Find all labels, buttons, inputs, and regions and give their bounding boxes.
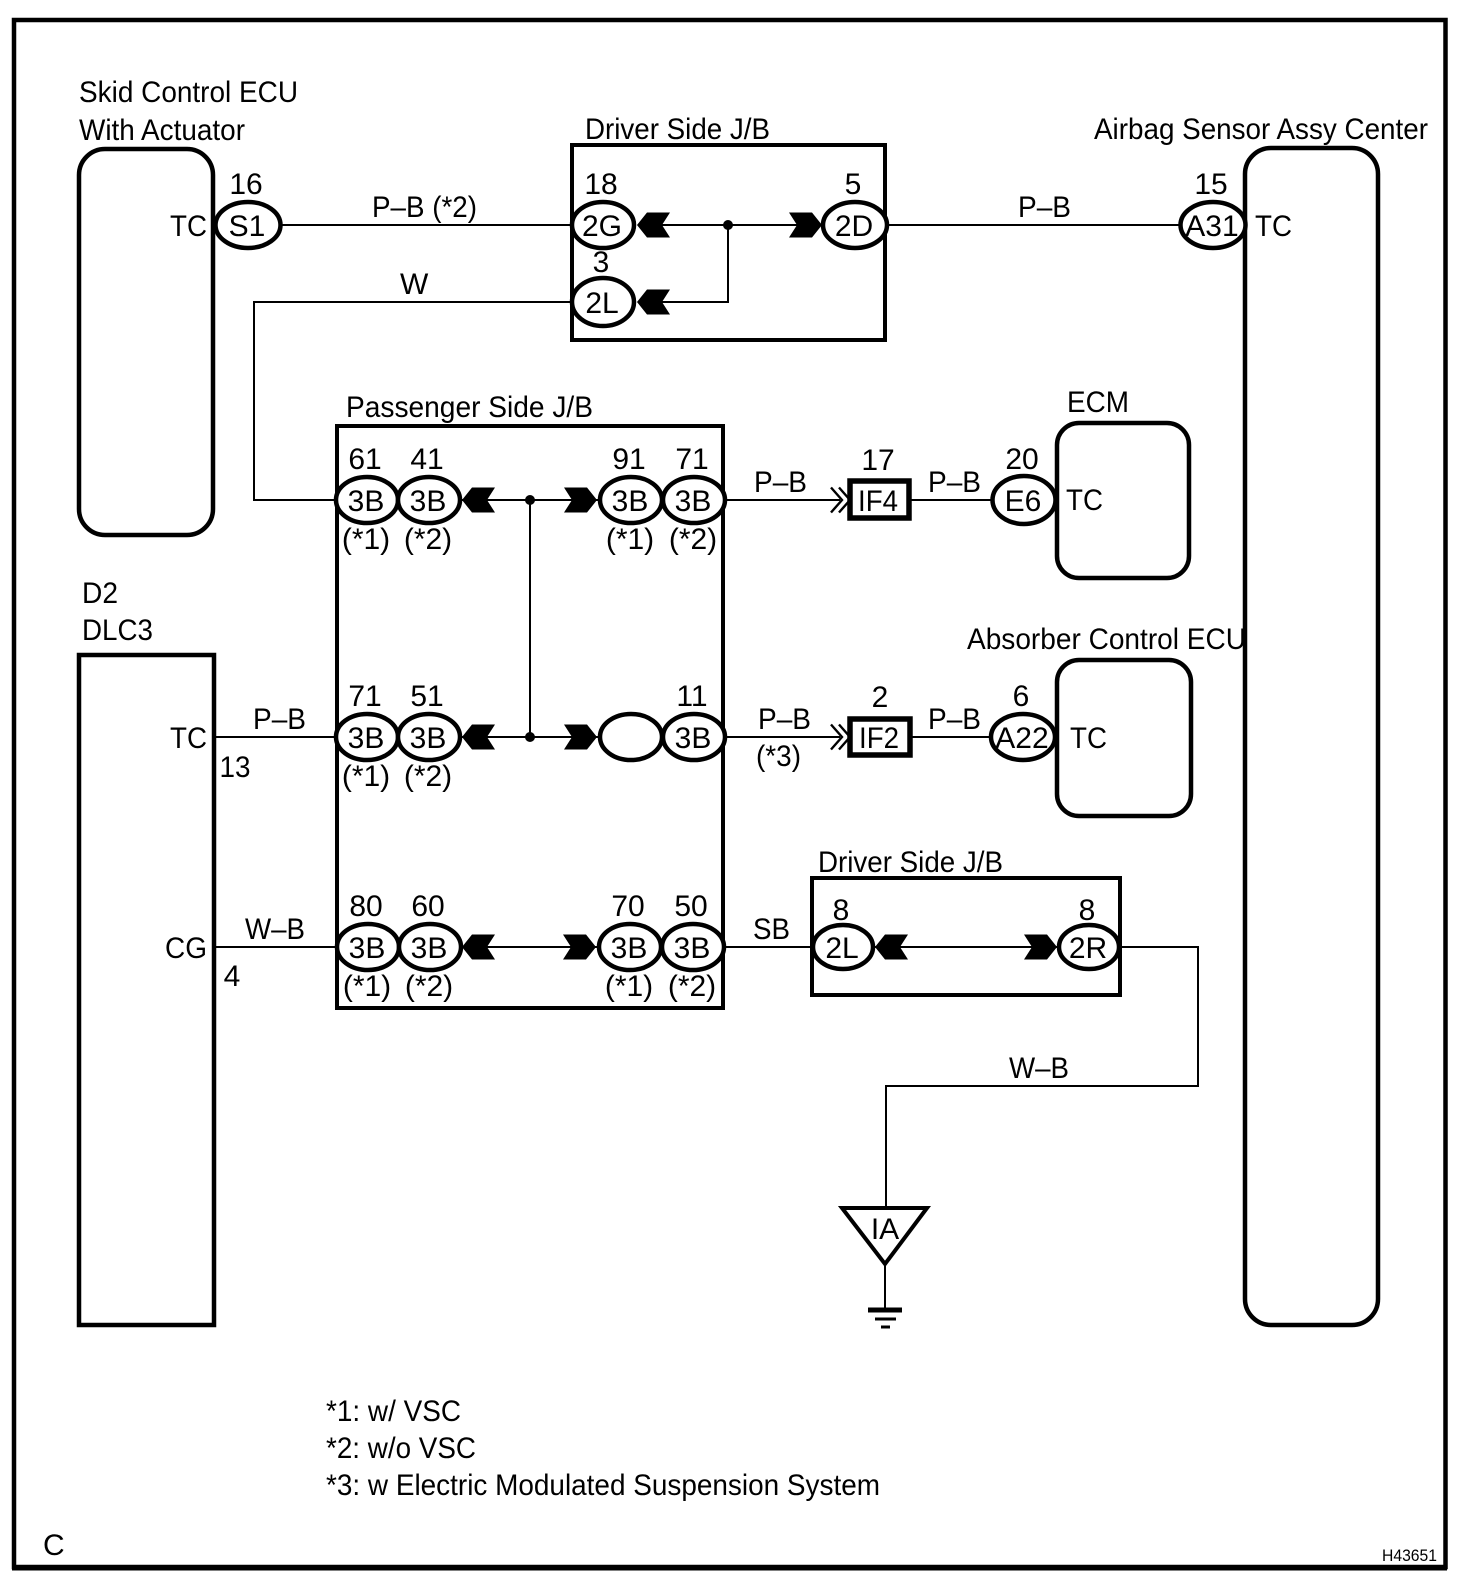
svg-text:Airbag Sensor Assy Center: Airbag Sensor Assy Center bbox=[1094, 113, 1428, 146]
ECM component box bbox=[1057, 423, 1189, 578]
svg-text:W–B: W–B bbox=[245, 913, 305, 946]
wire IA to ground symbol bbox=[884, 1264, 886, 1310]
connector splice arrows before IF4 bbox=[831, 488, 850, 513]
svg-text:3: 3 bbox=[593, 246, 610, 279]
svg-text:Driver Side J/B: Driver Side J/B bbox=[585, 113, 770, 146]
svg-text:IF4: IF4 bbox=[858, 485, 898, 518]
svg-text:3B: 3B bbox=[675, 722, 712, 755]
DLC3 connector box bbox=[79, 655, 214, 1325]
svg-text:17: 17 bbox=[861, 444, 894, 477]
male arrow row 2 bbox=[564, 488, 597, 513]
svg-text:Driver Side J/B: Driver Side J/B bbox=[818, 846, 1003, 879]
svg-text:70: 70 bbox=[611, 890, 644, 923]
svg-text:(*1): (*1) bbox=[342, 760, 390, 793]
connector splice arrows before IF2 bbox=[831, 725, 850, 750]
svg-text:4: 4 bbox=[224, 960, 241, 993]
svg-text:P–B (*2): P–B (*2) bbox=[372, 191, 477, 224]
connector 3B pin 91 of passenger side J/B bbox=[600, 477, 662, 523]
svg-text:(*1): (*1) bbox=[605, 970, 653, 1003]
svg-text:(*1): (*1) bbox=[343, 970, 391, 1003]
svg-text:91: 91 bbox=[612, 443, 645, 476]
female arrow row 4 bbox=[462, 935, 495, 960]
svg-text:D2: D2 bbox=[82, 577, 118, 610]
svg-text:(*2): (*2) bbox=[669, 523, 717, 556]
svg-text:(*2): (*2) bbox=[404, 760, 452, 793]
connector 3B pin 41 of passenger side J/B bbox=[398, 477, 460, 523]
Airbag Sensor Assy Center component box bbox=[1245, 148, 1378, 1325]
connector 3B pin 61 of passenger side J/B bbox=[336, 477, 398, 523]
svg-text:2L: 2L bbox=[825, 932, 858, 965]
wire 2G to 2D inside junction block bbox=[648, 224, 812, 226]
svg-text:3B: 3B bbox=[411, 932, 448, 965]
wire 2D to A31, P-B bbox=[885, 224, 1183, 226]
svg-text:2D: 2D bbox=[835, 210, 873, 243]
svg-text:TC: TC bbox=[1255, 210, 1292, 243]
Skid Control ECU with Actuator component box bbox=[79, 149, 213, 535]
connector 2L pin 3 of driver side J/B bbox=[572, 278, 634, 326]
connector 3B pin 71 of passenger side J/B bbox=[663, 477, 725, 523]
svg-text:CG: CG bbox=[165, 932, 207, 965]
wire S1 to 2G, P-B (*2) bbox=[281, 224, 574, 226]
svg-text:71: 71 bbox=[348, 680, 381, 713]
svg-text:2G: 2G bbox=[582, 210, 622, 243]
svg-text:41: 41 bbox=[410, 443, 443, 476]
male arrow at 2R bottom bbox=[1024, 935, 1057, 960]
junction node row 2 bbox=[525, 495, 535, 505]
svg-text:3B: 3B bbox=[410, 722, 447, 755]
svg-text:11: 11 bbox=[676, 680, 707, 713]
connector A22 pin 6 of absorber control ECU bbox=[991, 714, 1055, 760]
svg-text:(*2): (*2) bbox=[404, 523, 452, 556]
ground connector IA triangle bbox=[842, 1208, 927, 1264]
svg-text:Passenger Side J/B: Passenger Side J/B bbox=[346, 391, 593, 424]
svg-text:H43651: H43651 bbox=[1382, 1546, 1437, 1565]
svg-text:13: 13 bbox=[220, 751, 251, 784]
svg-text:E6: E6 bbox=[1005, 485, 1042, 518]
svg-text:18: 18 bbox=[584, 168, 617, 201]
svg-text:2L: 2L bbox=[585, 287, 618, 320]
connector 3B pin 71 of passenger side J/B row 2 bbox=[336, 714, 398, 760]
female arrow at 2G bbox=[637, 213, 670, 238]
connector A31 pin 15 of airbag sensor bbox=[1181, 202, 1246, 248]
svg-text:2R: 2R bbox=[1069, 932, 1107, 965]
svg-text:61: 61 bbox=[348, 443, 381, 476]
svg-text:3B: 3B bbox=[675, 485, 712, 518]
svg-text:5: 5 bbox=[845, 168, 862, 201]
svg-text:3B: 3B bbox=[611, 932, 648, 965]
svg-text:80: 80 bbox=[349, 890, 382, 923]
svg-text:3B: 3B bbox=[674, 932, 711, 965]
wire 2L to 2R inside bottom driver side J/B bbox=[872, 946, 1060, 948]
svg-text:(*1): (*1) bbox=[606, 523, 654, 556]
wire IF2 to A22, P-B bbox=[910, 736, 993, 738]
svg-text:ECM: ECM bbox=[1067, 386, 1129, 419]
connector IF4 pin 17 bbox=[850, 481, 909, 518]
connector 2D pin 5 of driver side J/B bbox=[823, 202, 887, 248]
junction node on 2G-2D wire bbox=[723, 220, 733, 230]
svg-text:DLC3: DLC3 bbox=[82, 614, 153, 647]
svg-text:71: 71 bbox=[675, 443, 708, 476]
Driver Side J/B junction block (bottom) bbox=[812, 878, 1120, 995]
svg-text:P–B: P–B bbox=[253, 703, 306, 736]
svg-text:2: 2 bbox=[872, 681, 889, 714]
svg-text:*1: w/ VSC: *1: w/ VSC bbox=[326, 1395, 461, 1428]
connector 3B pin 70 of passenger side J/B row 3 bbox=[599, 924, 661, 970]
svg-text:A31: A31 bbox=[1185, 210, 1238, 243]
svg-text:(*1): (*1) bbox=[342, 523, 390, 556]
wire 2L to 3B-61, W bbox=[254, 302, 574, 500]
svg-text:TC: TC bbox=[1070, 722, 1107, 755]
svg-text:Skid Control ECU: Skid Control ECU bbox=[79, 76, 298, 109]
connector IF2 pin 2 bbox=[850, 719, 910, 755]
svg-text:*2: w/o VSC: *2: w/o VSC bbox=[326, 1432, 476, 1465]
svg-text:IF2: IF2 bbox=[859, 722, 899, 755]
svg-text:W–B: W–B bbox=[1009, 1052, 1069, 1085]
svg-text:(*3): (*3) bbox=[756, 740, 801, 773]
svg-text:IA: IA bbox=[871, 1213, 899, 1246]
wire branch from node to 2L bbox=[650, 225, 728, 302]
connector 3B pin 60 of passenger side J/B row 3 bbox=[399, 924, 461, 970]
svg-text:8: 8 bbox=[833, 894, 850, 927]
svg-text:3B: 3B bbox=[349, 932, 386, 965]
Passenger Side J/B junction block bbox=[337, 426, 723, 1008]
wire vertical branch between row junctions bbox=[529, 500, 531, 737]
svg-text:P–B: P–B bbox=[928, 466, 981, 499]
female arrow at 2L bbox=[637, 290, 670, 315]
wire 2R to ground IA, W-B bbox=[886, 947, 1198, 1210]
svg-text:TC: TC bbox=[170, 210, 207, 243]
Driver Side J/B junction block (top) bbox=[572, 145, 885, 340]
svg-text:60: 60 bbox=[411, 890, 444, 923]
female arrow row 2 bbox=[462, 488, 495, 513]
connector S1 pin 16 of skid control ECU bbox=[216, 202, 281, 248]
svg-text:W: W bbox=[400, 268, 429, 301]
junction node row 3 bbox=[525, 732, 535, 742]
wire IF4 to E6, P-B bbox=[908, 499, 994, 501]
connector 3B pin 11 of passenger side J/B row 2 bbox=[663, 714, 725, 760]
svg-text:3B: 3B bbox=[348, 485, 385, 518]
connector 3B pin 51 of passenger side J/B row 2 bbox=[398, 714, 460, 760]
connector 3B pin 80 of passenger side J/B row 3 bbox=[337, 924, 399, 970]
svg-text:TC: TC bbox=[170, 722, 207, 755]
wire between 3B-41 and 3B-91 inside passenger J/B bbox=[458, 499, 600, 501]
wire 3B-11 to IF2, P-B (*3) bbox=[723, 736, 840, 738]
wire 3B-50 to 2L, SB bbox=[722, 946, 816, 948]
connector 3B pin 50 of passenger side J/B row 3 bbox=[662, 924, 724, 970]
svg-text:P–B: P–B bbox=[758, 703, 811, 736]
svg-text:16: 16 bbox=[229, 168, 262, 201]
page border bottom edge (heavier) bbox=[12, 1566, 1447, 1571]
svg-text:S1: S1 bbox=[229, 210, 266, 243]
svg-text:50: 50 bbox=[674, 890, 707, 923]
svg-text:A22: A22 bbox=[995, 722, 1048, 755]
female arrow row 3 bbox=[462, 725, 495, 750]
svg-text:P–B: P–B bbox=[928, 703, 981, 736]
svg-text:Absorber Control ECU: Absorber Control ECU bbox=[967, 623, 1246, 656]
male arrow at 2D bbox=[789, 213, 822, 238]
svg-text:15: 15 bbox=[1194, 168, 1227, 201]
female arrow at 2L bottom bbox=[875, 935, 908, 960]
connector 2L pin 8 of bottom driver side J/B bbox=[813, 925, 873, 969]
svg-text:8: 8 bbox=[1079, 894, 1096, 927]
svg-text:P–B: P–B bbox=[754, 466, 807, 499]
blank connector of passenger side J/B row 2 bbox=[600, 714, 662, 760]
connector 2R pin 8 of bottom driver side J/B bbox=[1059, 925, 1119, 969]
Absorber Control ECU component box bbox=[1057, 660, 1191, 816]
svg-text:(*2): (*2) bbox=[405, 970, 453, 1003]
wire between 3B-51 and blank connector inside passenger J/B bbox=[458, 736, 600, 738]
connector 2G pin 18 of driver side J/B bbox=[572, 202, 634, 248]
male arrow row 4 bbox=[563, 935, 596, 960]
ground symbol bbox=[868, 1310, 902, 1327]
wire DLC3 CG to 3B-80, W-B bbox=[216, 946, 340, 948]
svg-text:3B: 3B bbox=[410, 485, 447, 518]
wire DLC3 TC to 3B-71, P-B bbox=[216, 736, 340, 738]
svg-text:51: 51 bbox=[410, 680, 443, 713]
svg-text:3B: 3B bbox=[612, 485, 649, 518]
svg-text:P–B: P–B bbox=[1018, 191, 1071, 224]
svg-text:TC: TC bbox=[1066, 484, 1103, 517]
svg-text:C: C bbox=[43, 1529, 65, 1562]
connector E6 pin 20 of ECM bbox=[993, 476, 1056, 524]
svg-text:With Actuator: With Actuator bbox=[79, 114, 245, 147]
wire between 3B-60 and 3B-70 inside passenger J/B bbox=[458, 946, 599, 948]
svg-text:SB: SB bbox=[753, 913, 790, 946]
wire 3B-71 to IF4, P-B bbox=[723, 499, 840, 501]
svg-text:20: 20 bbox=[1005, 443, 1038, 476]
svg-text:6: 6 bbox=[1013, 680, 1030, 713]
svg-text:3B: 3B bbox=[348, 722, 385, 755]
svg-text:(*2): (*2) bbox=[668, 970, 716, 1003]
svg-text:*3: w Electric Modulated Suspe: *3: w Electric Modulated Suspension Syst… bbox=[326, 1469, 880, 1502]
male arrow row 3 bbox=[564, 725, 597, 750]
